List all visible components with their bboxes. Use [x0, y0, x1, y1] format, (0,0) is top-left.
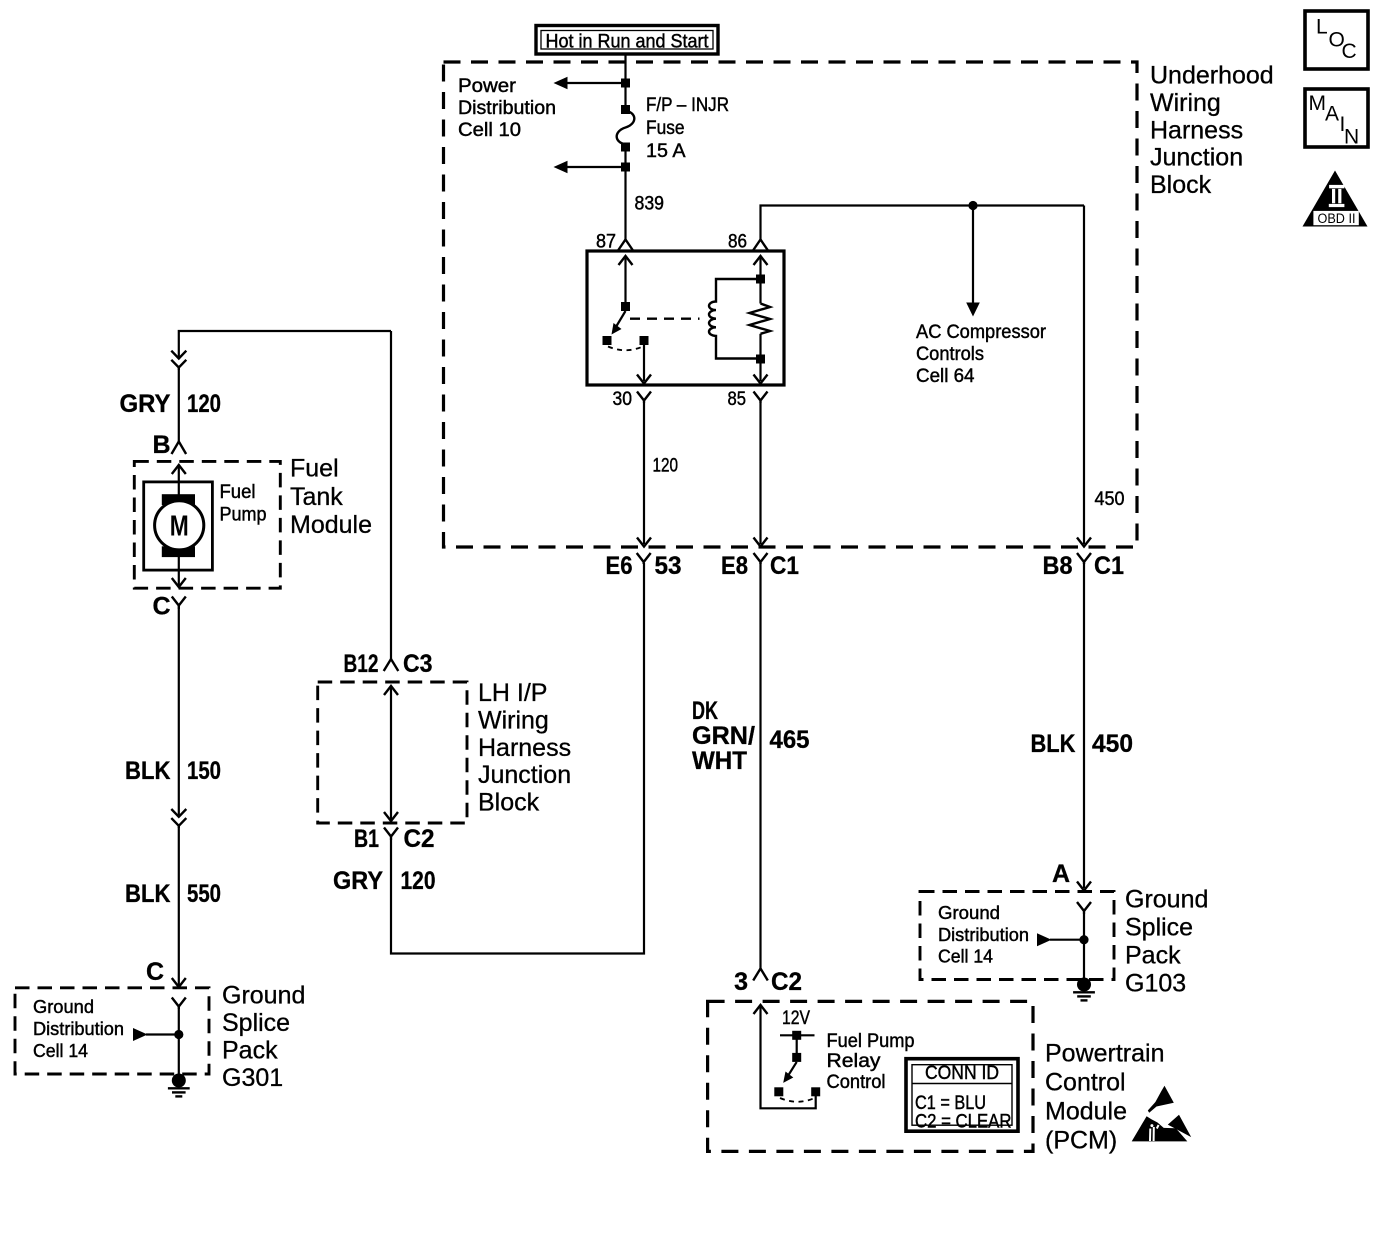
label: Power Distribution Cell 10 [458, 75, 556, 141]
label: F/P - INJR Fuse 15 A [646, 94, 729, 162]
ground symbol G103 [1073, 978, 1095, 1001]
svg-text:Control: Control [1045, 1069, 1126, 1097]
svg-text:A: A [1325, 103, 1339, 126]
svg-text:Module: Module [290, 511, 372, 539]
svg-text:Ground: Ground [33, 996, 94, 1017]
svg-text:B: B [153, 431, 171, 459]
svg-text:F/P – INJR: F/P – INJR [646, 94, 729, 116]
label: BLK 150 [125, 757, 221, 785]
svg-text:85: 85 [728, 389, 747, 410]
svg-text:C2: C2 [771, 968, 802, 996]
svg-text:Pack: Pack [1125, 942, 1181, 970]
power label box "Hot in Run and Start" [536, 26, 718, 55]
connector: male terminal B12 [384, 659, 399, 671]
svg-text:(PCM): (PCM) [1045, 1127, 1117, 1155]
label: BLK 450 [1031, 730, 1134, 758]
splice feed triangle (G301) [133, 1028, 179, 1041]
wire: B8 drop to ground splice pack A [1077, 563, 1091, 891]
connector E8 C1 at junction block edge [721, 552, 799, 580]
svg-text:B12: B12 [344, 650, 379, 678]
svg-text:Relay: Relay [827, 1050, 881, 1072]
svg-text:Cell 14: Cell 14 [33, 1040, 88, 1061]
svg-text:C: C [146, 958, 164, 986]
Underhood Wiring Harness Junction Block dashed box [444, 62, 1138, 547]
wire: pin 85 down to E8 with arrow [754, 403, 768, 547]
label: BLK 550 [125, 880, 221, 908]
svg-text:Cell 10: Cell 10 [458, 119, 521, 141]
svg-text:BLK: BLK [1031, 730, 1076, 758]
Ground Splice Pack G301 dashed box [15, 988, 209, 1074]
connector: female terminal B1 [384, 828, 398, 841]
svg-text:12V: 12V [782, 1008, 810, 1029]
connector: male terminal at relay pin 87 [618, 240, 633, 251]
wire: hot feed down from box [624, 54, 626, 110]
svg-text:Splice: Splice [1125, 914, 1193, 942]
Ground Splice Pack G103 dashed box [920, 892, 1114, 980]
MAIN symbol box [1305, 89, 1368, 149]
svg-text:Ground: Ground [938, 902, 1000, 923]
label: Ground Splice Pack G103 [1125, 886, 1208, 998]
node: junction at power distribution tap 2 [621, 163, 630, 172]
svg-text:AC Compressor: AC Compressor [916, 321, 1046, 343]
label: B12 C3 [344, 650, 433, 678]
svg-text:Power: Power [458, 75, 517, 97]
label: Underhood Wiring Harness Junction Block [1150, 62, 1274, 200]
node: PCM switch right contact [811, 1087, 820, 1096]
svg-text:B8: B8 [1043, 552, 1073, 580]
OBD II symbol [1303, 171, 1368, 227]
wire: tap down to AC Compressor Controls [966, 206, 980, 317]
connector E6 53 at junction block edge [606, 552, 682, 580]
svg-text:WHT: WHT [692, 747, 747, 775]
svg-text:OBD II: OBD II [1318, 211, 1356, 226]
connector: male terminal B [172, 442, 187, 455]
svg-text:Ground: Ground [1125, 886, 1208, 914]
wire: tap to Power Distribution (left arrow 2) [554, 161, 626, 174]
ESD sensitive symbol [1132, 1086, 1192, 1142]
splice feed triangle (G103) [1037, 933, 1084, 946]
label: Fuel Pump Relay Control [827, 1030, 915, 1093]
svg-text:Ground: Ground [222, 982, 305, 1010]
connector: in-line splice (double chevron) upper [171, 351, 186, 370]
node: coil/resistor top junction [756, 275, 765, 284]
label: Powertrain Control Module (PCM) [1045, 1040, 1165, 1155]
svg-text:Pump: Pump [220, 504, 267, 526]
label: Fuel Tank Module [290, 455, 372, 540]
svg-text:C: C [1342, 40, 1357, 63]
svg-text:E6: E6 [606, 552, 633, 580]
connector: female terminal C [172, 597, 186, 610]
node: relay common contact [603, 336, 612, 345]
svg-text:120: 120 [401, 867, 436, 895]
wire: fuse to relay pin 87 [624, 147, 626, 240]
relay coil [709, 279, 761, 359]
resistor (zigzag) [750, 283, 771, 355]
svg-text:G103: G103 [1125, 970, 1186, 998]
svg-text:Harness: Harness [1150, 116, 1243, 144]
wire: PCM entry up arrow, down and around to switch [754, 1005, 816, 1108]
PCM switch fixed lead [792, 1035, 801, 1062]
fuel pump motor M [155, 501, 204, 550]
wire: left feed horizontal GRY 120 top [179, 331, 391, 358]
svg-text:GRY: GRY [120, 390, 171, 418]
wire: right drop to B8 C1 [1077, 206, 1091, 547]
svg-text:LH I/P: LH I/P [478, 679, 547, 707]
label: LH I/P Wiring Harness Junction Block [478, 679, 571, 817]
svg-text:B1: B1 [354, 825, 379, 853]
wire: down to pin 85 with arrow [754, 363, 768, 384]
svg-text:Fuel: Fuel [290, 455, 339, 483]
svg-text:30: 30 [613, 389, 633, 410]
label: Ground Splice Pack G301 [222, 982, 305, 1093]
wire: down to fuel tank module connector B [178, 370, 180, 442]
wire: relay output down to pin 30 with arrow [637, 345, 651, 384]
relay coil suppression resistor branch: up arrow at 86 [754, 256, 768, 276]
svg-text:Controls: Controls [916, 343, 984, 365]
svg-text:N: N [1344, 126, 1359, 149]
connector: female terminal inside G301 [172, 998, 186, 1010]
connector: female terminal at pin 85 [754, 392, 768, 404]
svg-text:M: M [1309, 92, 1327, 115]
svg-text:CONN ID: CONN ID [925, 1062, 999, 1084]
svg-text:3: 3 [734, 968, 748, 996]
label: Ground Distribution Cell 14 (G103) [938, 902, 1029, 967]
svg-text:87: 87 [596, 232, 616, 253]
connector B8 C1 at junction block edge [1043, 552, 1125, 580]
svg-text:M: M [170, 511, 189, 543]
label: GRY 120 (below B1 C2) [333, 867, 436, 895]
svg-text:Module: Module [1045, 1098, 1127, 1126]
connector: male terminal at relay pin 86 [753, 240, 768, 251]
svg-text:Block: Block [1150, 171, 1212, 199]
svg-text:Cell 14: Cell 14 [938, 946, 993, 967]
svg-text:Hot in Run and Start: Hot in Run and Start [546, 31, 710, 53]
svg-text:BLK: BLK [125, 757, 171, 785]
svg-text:G301: G301 [222, 1064, 283, 1092]
svg-text:550: 550 [187, 880, 221, 908]
LOC symbol box [1305, 11, 1368, 69]
label: 3 C2 [734, 968, 802, 996]
svg-text:450: 450 [1092, 730, 1133, 758]
relay switch blade (movable contact) [612, 311, 626, 335]
wire: through LH I/P block with up arrow and down arrow [384, 686, 398, 821]
svg-text:E8: E8 [721, 552, 748, 580]
PCM dashed throw arc [780, 1098, 815, 1102]
relay switch: pin 87 leg with up arrow [619, 256, 633, 303]
svg-text:L: L [1316, 16, 1328, 39]
label: GRY 120 [120, 390, 222, 418]
relay: dashed throw arc [608, 347, 643, 351]
svg-text:Fuse: Fuse [646, 117, 685, 139]
wire: pin 30 down to E6 with arrow [637, 403, 651, 547]
wire: B1 down, across, and up to E6 [391, 563, 644, 954]
svg-text:Fuel: Fuel [220, 481, 256, 503]
svg-text:GRY: GRY [333, 867, 383, 895]
svg-text:Block: Block [478, 789, 540, 817]
svg-text:Cell 64: Cell 64 [916, 365, 975, 387]
svg-text:86: 86 [728, 232, 747, 253]
svg-text:Splice: Splice [222, 1009, 290, 1037]
wire: down to G301 [172, 828, 186, 987]
svg-text:53: 53 [655, 552, 682, 580]
connector: in-line splice (double chevron) lower [171, 809, 186, 828]
svg-text:Wiring: Wiring [478, 706, 549, 734]
node: relay output contact to pin 30 [640, 336, 649, 345]
wire: to ground G103 [1083, 914, 1085, 981]
wire: E8 down to PCM connector 3 C2 [759, 563, 761, 969]
Powertrain Control Module dashed box [708, 1001, 1033, 1151]
connector: female terminal at pin 30 [637, 392, 651, 404]
svg-text:DK: DK [692, 697, 718, 725]
node: junction at power distribution tap 1 [621, 79, 630, 88]
svg-text:C1: C1 [1094, 552, 1124, 580]
wire: from pin 86 up and across to B8 drop [761, 206, 1085, 240]
svg-text:Wiring: Wiring [1150, 89, 1221, 117]
label: DK GRN/ WHT [692, 697, 755, 775]
svg-text:Distribution: Distribution [33, 1018, 124, 1039]
svg-text:C3: C3 [403, 650, 433, 678]
wire: down to in-line splice 2 [178, 609, 180, 816]
connector: female terminal inside G103 [1077, 902, 1091, 914]
motor brush (top) [162, 494, 195, 505]
svg-text:Harness: Harness [478, 734, 571, 762]
svg-text:Tank: Tank [290, 483, 343, 511]
PCM switch blade (fuel pump relay driver) [783, 1062, 797, 1083]
ground symbol G301 [168, 1074, 190, 1097]
svg-text:Control: Control [827, 1071, 886, 1093]
svg-text:Distribution: Distribution [938, 924, 1029, 945]
CONN ID table [906, 1059, 1018, 1133]
connector: male terminal 3 (PCM) [753, 969, 768, 981]
svg-text:A: A [1052, 860, 1070, 888]
wire: tap to Power Distribution (left arrow 1) [554, 77, 626, 90]
wire: GRY drop to B12 C3 [390, 331, 392, 659]
svg-text:C1: C1 [770, 552, 799, 580]
wire: to ground G301 [178, 1009, 180, 1076]
relay box (fuel pump relay) [587, 251, 784, 385]
node: coil/resistor bottom junction [756, 355, 765, 364]
svg-text:BLK: BLK [125, 880, 171, 908]
relay: dashed actuation line to coil [630, 318, 700, 320]
node: relay switch pivot [621, 302, 630, 311]
label: AC Compressor Controls Cell 64 [916, 321, 1046, 387]
fuel pump motor outer box [144, 482, 213, 570]
svg-text:C2 = CLEAR: C2 = CLEAR [915, 1111, 1012, 1133]
svg-text:450: 450 [1095, 489, 1125, 510]
label: Ground Distribution Cell 14 (G301) [33, 996, 124, 1061]
svg-text:839: 839 [635, 194, 665, 215]
svg-text:Pack: Pack [222, 1037, 278, 1065]
Fuel Tank Module dashed box [134, 461, 280, 588]
PCM 12V supply bar [780, 1031, 815, 1040]
svg-text:C2: C2 [404, 825, 435, 853]
wire: entry arrow into module (up arrow) [172, 465, 186, 496]
node: splice junction dot G301 [174, 1030, 183, 1039]
svg-text:15 A: 15 A [646, 140, 686, 162]
svg-text:Fuel Pump: Fuel Pump [827, 1030, 915, 1052]
LH I/P Wiring Harness Junction Block dashed box [318, 682, 467, 823]
node: splice junction dot G103 [1079, 935, 1088, 944]
svg-text:150: 150 [187, 757, 221, 785]
svg-text:Powertrain: Powertrain [1045, 1040, 1165, 1068]
svg-text:GRN/: GRN/ [692, 722, 755, 750]
wire: pump to connector C with down arrow [172, 557, 186, 587]
svg-text:Distribution: Distribution [458, 97, 556, 119]
label: B1 C2 [354, 825, 435, 853]
motor brush (bottom) [162, 546, 195, 557]
svg-text:C: C [153, 593, 171, 621]
svg-text:Underhood: Underhood [1150, 62, 1274, 90]
svg-text:Junction: Junction [1150, 144, 1243, 172]
fuse F/P - INJR 15 A [617, 105, 635, 152]
svg-text:Junction: Junction [478, 761, 571, 789]
label: Fuel Pump [220, 481, 267, 526]
svg-text:120: 120 [187, 390, 221, 418]
svg-text:120: 120 [653, 456, 679, 477]
svg-text:465: 465 [770, 726, 810, 754]
node: PCM switch left contact [774, 1087, 783, 1096]
node: junction dot for AC compressor tap [968, 201, 977, 210]
